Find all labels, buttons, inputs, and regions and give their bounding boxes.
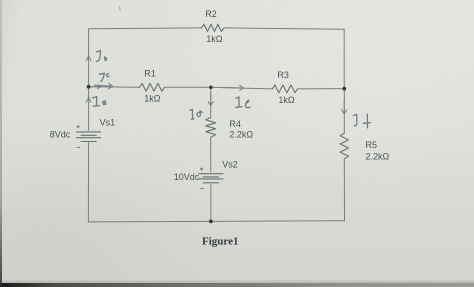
value label R2 1kOhm — [206, 34, 223, 44]
label R2 — [205, 9, 217, 19]
voltage source Vs2 battery plates — [199, 174, 223, 183]
voltage source Vs1 battery plates — [77, 132, 101, 142]
polarity plus mark Vs1 — [77, 126, 79, 128]
wire middle rail left (node A to R1) — [89, 86, 140, 89]
stray pen tick top-left — [119, 7, 122, 11]
value label R5 2.2kOhm — [366, 151, 390, 161]
caption Figure1 — [202, 235, 238, 247]
current arrow Ie (right, on middle rail) — [222, 85, 243, 90]
current arrow on middle rail small (printed) — [92, 85, 101, 89]
resistor R2 — [201, 24, 224, 31]
node D junction dot (bottom rail / Vs2 branch) — [209, 220, 213, 224]
svg-text:R1: R1 — [144, 69, 156, 79]
label Vs1 — [100, 117, 116, 127]
polarity minus mark Vs1 — [78, 147, 80, 149]
wire right rail lower (R5 to bottom corner) — [343, 159, 345, 221]
label R3 — [277, 70, 289, 80]
node B junction dot (middle rail / R4 branch) — [209, 86, 213, 90]
node C junction dot (right rail mid) — [342, 87, 346, 91]
current arrow If (down, on right rail) — [342, 100, 347, 114]
value label 8Vdc — [50, 130, 71, 140]
value label R3 1kOhm — [278, 95, 295, 105]
wire right rail upper — [343, 29, 345, 88]
value label R1 1kOhm — [144, 94, 161, 104]
value label 10Vdc — [174, 172, 200, 182]
wire left rail lower (battery to bottom) — [87, 142, 89, 222]
resistor R3 — [272, 85, 297, 93]
current arrow Ia (up, on left rail below node A) — [86, 97, 90, 102]
label R4 — [229, 119, 241, 129]
svg-text:Vs1: Vs1 — [100, 117, 116, 127]
svg-text:1kΩ: 1kΩ — [144, 94, 161, 104]
label R1 — [144, 69, 156, 79]
svg-text:1kΩ: 1kΩ — [278, 95, 295, 105]
svg-text:8Vdc: 8Vdc — [50, 130, 71, 140]
label R5 — [366, 140, 378, 150]
value label R4 2.2kOhm — [229, 129, 253, 139]
svg-text:2.2kΩ: 2.2kΩ — [229, 129, 253, 139]
wire middle rail center (R1 to node B to R3) — [165, 87, 273, 89]
wire middle rail right (R3 to node C) — [298, 88, 345, 90]
svg-text:R5: R5 — [366, 140, 378, 150]
svg-text:Vs2: Vs2 — [222, 159, 238, 169]
resistor R4 — [206, 117, 216, 137]
svg-text:10Vdc: 10Vdc — [174, 172, 200, 182]
current arrow Ic (pencil arrow above wire) — [94, 83, 113, 89]
wire top rail — [89, 28, 345, 29]
handwritten label Ib — [96, 51, 106, 62]
handwritten label Ic — [99, 73, 109, 81]
wire right rail mid (node to R5) — [343, 89, 345, 134]
handwritten label Id — [190, 109, 203, 119]
resistor R5 — [340, 133, 348, 159]
wire bottom rail — [88, 221, 344, 222]
wire top-left vertical segment (left rail upper) — [88, 29, 90, 130]
label Vs2 — [222, 159, 238, 169]
node A junction dot (left mid) — [87, 85, 91, 89]
svg-text:1kΩ: 1kΩ — [206, 34, 223, 44]
wire middle branch upper (node B to R4) — [210, 87, 212, 117]
current arrow Ib (up, on left rail) — [86, 56, 91, 61]
polarity minus mark Vs2 — [201, 188, 203, 190]
handwritten label Ia — [93, 97, 106, 107]
svg-text:2.2kΩ: 2.2kΩ — [366, 151, 390, 161]
resistor R1 — [140, 83, 165, 91]
handwritten label Ie — [236, 97, 250, 108]
svg-text:R2: R2 — [205, 9, 217, 19]
handwritten label If — [353, 114, 370, 128]
svg-text:R4: R4 — [229, 119, 241, 129]
wire middle branch lower (Vs2 to bottom node) — [210, 185, 212, 222]
current arrow Id (down, on middle branch) — [208, 94, 213, 106]
polarity plus mark Vs2 — [200, 168, 202, 170]
wire middle branch mid (R4 to Vs2) — [210, 137, 212, 172]
svg-text:Figure1: Figure1 — [202, 235, 238, 247]
svg-text:R3: R3 — [277, 70, 289, 80]
